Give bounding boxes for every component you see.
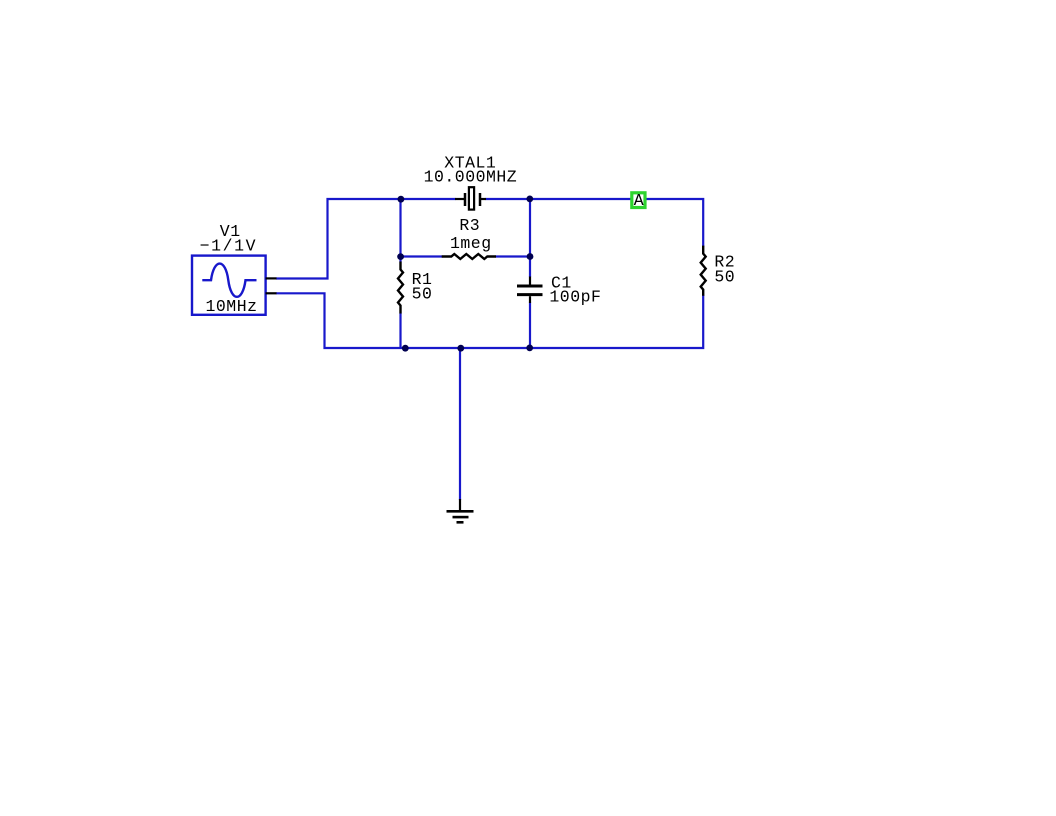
wire: C1 column bottom	[529, 303, 531, 349]
V1 sine waveform	[202, 264, 256, 297]
wire: V1 upper terminal to top rail	[276, 199, 456, 279]
wire: ground stem	[459, 348, 461, 500]
junction dot top-right	[526, 196, 533, 203]
junction dot bottom-left	[402, 345, 409, 352]
voltage source V1 box	[192, 256, 266, 315]
wire: top rail from crystal to R2 corner, down to R2	[486, 199, 704, 247]
junction dot bottom-C1	[526, 345, 533, 352]
wire: R2 bottom, bottom rail, up-left to V1 lower terminal	[276, 293, 703, 348]
resistor R3 (horizontal)	[442, 254, 496, 259]
junction dot R3 left	[397, 253, 404, 260]
svg-text:−1/1V: −1/1V	[200, 237, 258, 256]
left stub	[455, 198, 464, 200]
wire: R1 column top segment	[399, 199, 401, 262]
wire: C1 column top (rail to R3 row)	[529, 199, 531, 277]
svg-text:50: 50	[714, 267, 735, 286]
junction dot R3 right	[527, 253, 534, 260]
bottom plate	[517, 293, 543, 296]
ground	[447, 499, 474, 522]
crystal XTAL1	[455, 187, 486, 209]
svg-text:50: 50	[412, 285, 433, 304]
svg-text:1meg: 1meg	[450, 234, 492, 253]
capacitor C1	[517, 277, 543, 304]
wire: R3 row left	[401, 255, 443, 257]
right plate	[479, 193, 482, 206]
resistor R1 (vertical)	[398, 262, 403, 314]
svg-text:10MHz: 10MHz	[206, 297, 258, 316]
svg-text:10.000MHZ: 10.000MHZ	[424, 167, 518, 186]
svg-text:A: A	[634, 191, 644, 210]
resistor R2 (vertical)	[701, 246, 706, 296]
wire: R1 column bottom segment	[399, 313, 401, 348]
top stem	[529, 277, 531, 285]
junction dot top-left	[398, 196, 405, 203]
right stub	[481, 198, 486, 200]
bottom stem	[529, 296, 531, 303]
top plate	[517, 285, 543, 288]
wire: R3 row right	[496, 255, 531, 257]
junction dot bottom-ground	[457, 345, 464, 352]
V1 pin stub upper	[266, 277, 277, 279]
body rectangle	[469, 187, 474, 209]
left plate	[464, 193, 467, 206]
svg-text:100pF: 100pF	[549, 288, 601, 307]
svg-text:R3: R3	[459, 216, 480, 235]
node A marker	[632, 191, 645, 210]
V1 pin stub lower	[266, 292, 277, 294]
